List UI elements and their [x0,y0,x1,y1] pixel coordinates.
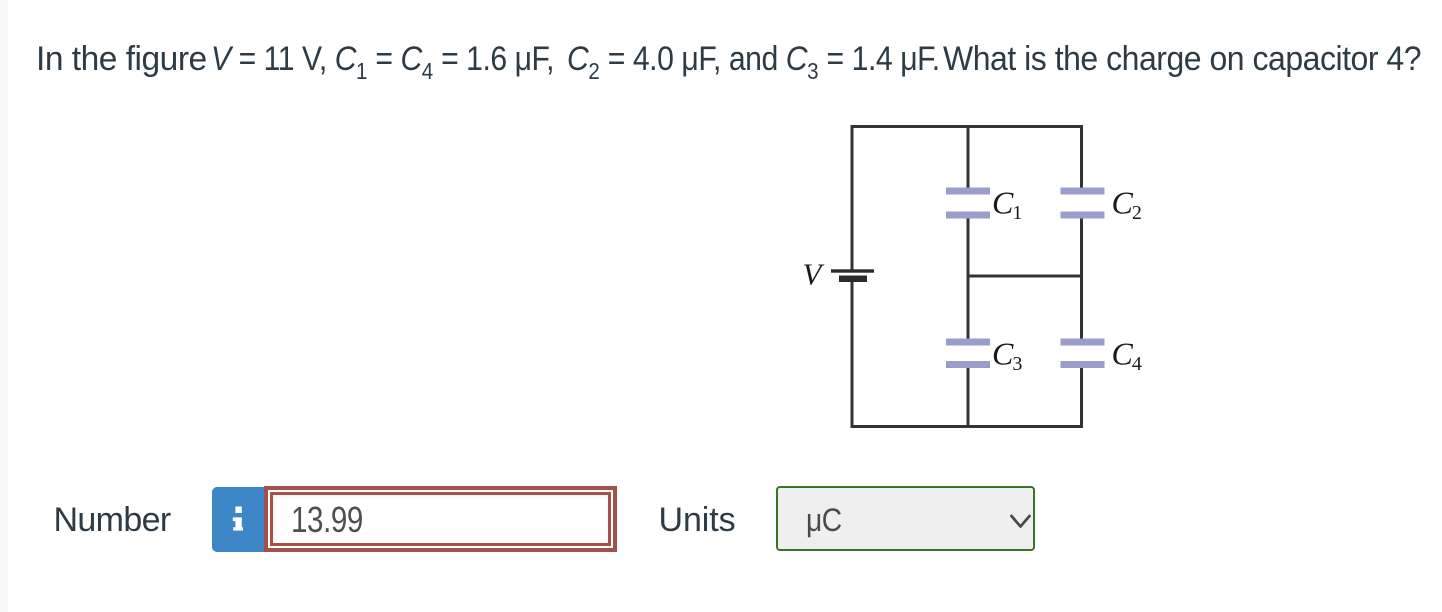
svg-text:C3: C3 [992,336,1022,376]
wire bottom [851,425,1084,428]
wire right middle [1080,218,1083,339]
capacitor C3 plates [946,339,990,369]
wire right upper [1080,125,1083,189]
wire middle vertical lower [967,368,970,428]
capacitor C1 plates [946,188,990,219]
wire middle vertical center [967,218,970,339]
battery V negative plate [839,276,867,283]
svg-text:C4: C4 [1112,336,1142,376]
svg-text:V: V [803,257,825,292]
wire middle vertical upper [967,125,970,189]
capacitor C2 plates [1061,188,1105,219]
svg-text:C1: C1 [992,185,1022,225]
battery V positive plate [831,269,874,272]
wire left lower [851,282,854,429]
wire right lower [1080,368,1083,428]
svg-text:C2: C2 [1112,185,1142,225]
wire left upper [851,125,854,271]
capacitor C4 plates [1061,339,1105,369]
wire top [851,125,1084,128]
wire middle horizontal [967,275,1084,278]
